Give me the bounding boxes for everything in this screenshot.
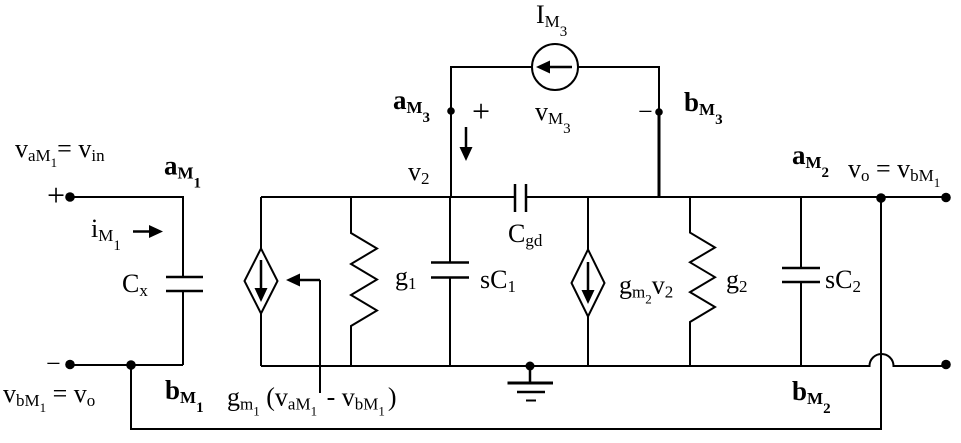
capacitor Cgd xyxy=(515,184,526,212)
node output vo on top bus xyxy=(876,193,886,203)
arrow i_M1 xyxy=(133,225,163,238)
wire b_M3 branch xyxy=(578,67,659,112)
capacitor sC1 xyxy=(431,197,469,366)
wire a_M3 branch xyxy=(451,67,532,197)
arrow current into node a_M3 xyxy=(460,127,473,161)
svg-text:+: + xyxy=(472,93,490,129)
svg-text:−: − xyxy=(638,97,653,126)
wire input top: + terminal to Cx xyxy=(70,197,183,277)
wire b_M3 to top bus (thick) xyxy=(658,112,661,197)
dependent source g_m1(vaM1-vbM1) xyxy=(245,197,278,366)
wire feedback bottom: from b_M1 node down, across, up to output node xyxy=(131,197,881,429)
resistor g2 xyxy=(690,197,715,366)
capacitor sC2 xyxy=(782,197,820,366)
wire bottom ground bus with crossover hop xyxy=(261,354,946,366)
node top right terminal xyxy=(941,193,951,203)
pointer arrow from g_m1 label to source xyxy=(286,274,320,394)
capacitor Cx xyxy=(166,277,203,365)
wire top bus right of Cgd xyxy=(526,196,946,198)
node a_M3 xyxy=(447,107,455,115)
current source I_M3 xyxy=(532,44,578,90)
node b_M3 xyxy=(655,108,663,116)
ground xyxy=(508,362,554,401)
node + input terminal xyxy=(65,192,75,202)
wire input bottom: - terminal to Cx xyxy=(70,364,183,366)
wire top bus left of Cgd xyxy=(261,196,515,198)
svg-text:−: − xyxy=(46,349,61,378)
dependent source g_m2 v2 xyxy=(572,197,605,366)
node - input terminal xyxy=(65,360,75,370)
node feedback junction b_M1 xyxy=(126,360,136,370)
node bottom right terminal xyxy=(941,360,951,370)
resistor g1 xyxy=(351,197,377,366)
svg-text:+: + xyxy=(47,177,65,213)
